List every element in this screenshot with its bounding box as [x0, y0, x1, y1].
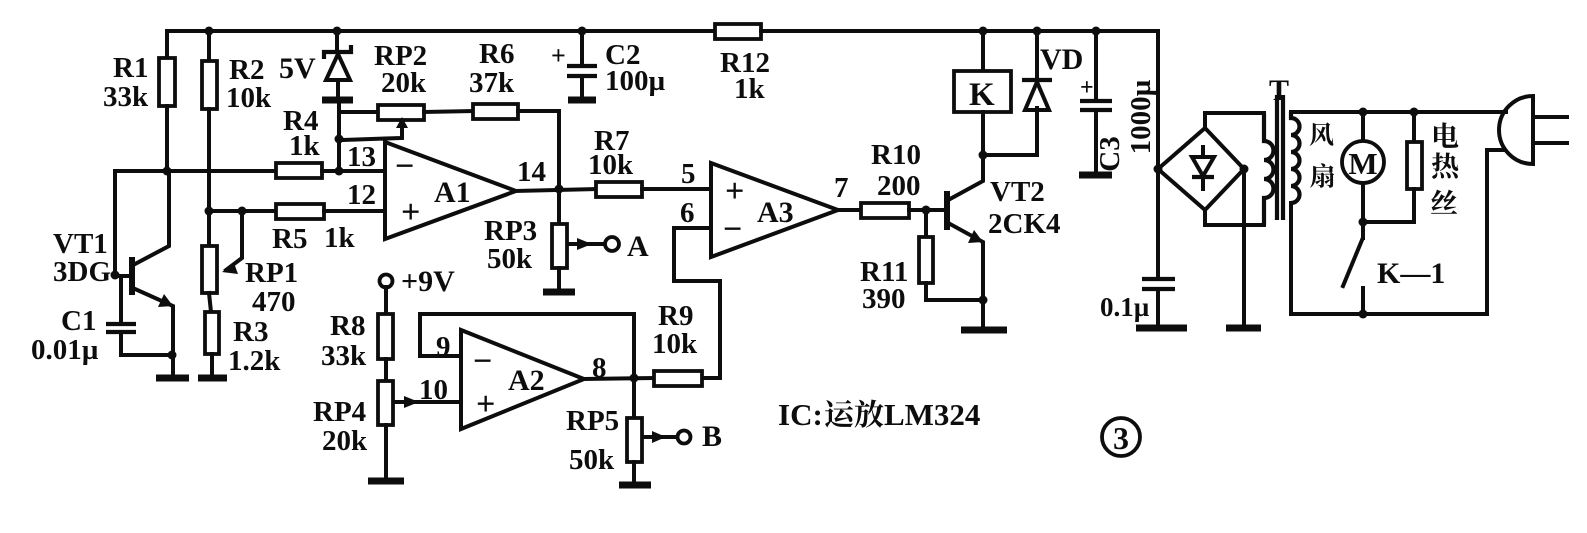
svg-text:33k: 33k [321, 340, 367, 372]
wire A2 output [584, 378, 654, 379]
svg-text:20k: 20k [381, 67, 427, 99]
ground RP3 [543, 289, 575, 296]
resistor R6 body [473, 104, 518, 119]
capacitor C1 [119, 276, 123, 323]
bridge inner diode [1201, 147, 1205, 157]
svg-text:1k: 1k [289, 130, 321, 162]
svg-text:+: + [551, 41, 566, 70]
svg-text:3: 3 [1113, 420, 1129, 456]
plug prongs [1535, 115, 1567, 119]
svg-text:K—1: K—1 [1377, 257, 1445, 290]
svg-text:A3: A3 [757, 196, 794, 229]
potentiometer RP3 [557, 189, 561, 224]
wire A1 pin12 line [207, 209, 276, 213]
svg-text:A2: A2 [508, 364, 545, 397]
potentiometer RP5 wiper arrow to terminal B [645, 435, 677, 439]
zener diode 5V [335, 31, 339, 52]
transformer T secondary winding [1264, 113, 1274, 225]
op-amp A2 [461, 330, 584, 429]
potentiometer RP5 [632, 378, 636, 418]
svg-text:0.1µ: 0.1µ [1100, 292, 1150, 322]
svg-text:IC:: IC: [778, 397, 823, 432]
svg-text:+9V: +9V [401, 265, 455, 298]
potentiometer RP1 body [207, 211, 211, 246]
label fan (vertical) [1310, 122, 1334, 145]
potentiometer RP4 body [378, 381, 393, 425]
ground 0.1u [1136, 325, 1187, 332]
svg-text:9: 9 [436, 331, 451, 363]
svg-text:A: A [627, 230, 649, 263]
label heating wire (vertical) [1434, 122, 1458, 148]
wire bridge right to ground [1242, 169, 1246, 326]
svg-text:20k: 20k [322, 425, 368, 457]
wire primary top to plug [1291, 110, 1506, 114]
wire bottom rail right to plug [1487, 150, 1503, 314]
svg-text:RP5: RP5 [566, 405, 619, 437]
resistor R10 body [861, 203, 909, 218]
plug body [1499, 96, 1533, 164]
svg-text:+: + [476, 386, 495, 423]
relay coil K box [981, 31, 985, 71]
resistor R9 body [654, 371, 702, 386]
svg-text:LM324: LM324 [884, 397, 980, 432]
wire A2 pin9 feedback loop [420, 314, 634, 378]
wire RP2 left terminal [339, 110, 378, 114]
op-amp A3 [711, 163, 838, 257]
heater resistor body [1412, 112, 1416, 142]
svg-text:1k: 1k [324, 222, 356, 254]
svg-text:10k: 10k [226, 82, 272, 114]
svg-text:A1: A1 [434, 176, 471, 209]
capacitor C2 [578, 27, 587, 36]
resistor R2 [207, 31, 211, 61]
ground VT2 emitter [961, 327, 1007, 334]
svg-text:R5: R5 [272, 223, 307, 255]
potentiometer RP4 wiper arrow to A2 pin10 [396, 400, 461, 404]
node heater branch top [1410, 108, 1419, 117]
terminal +9V circle [380, 275, 393, 288]
svg-text:R10: R10 [871, 139, 921, 171]
node zener RP2 wiper [335, 135, 344, 144]
svg-text:200: 200 [877, 170, 921, 202]
wire bridge top to transformer secondary [1205, 113, 1264, 128]
resistor R4 body [276, 163, 322, 178]
wire top supply rail left segment [167, 29, 717, 33]
svg-text:390: 390 [862, 283, 906, 315]
svg-text:7: 7 [834, 172, 849, 204]
wire primary bottom to bottom rail [1291, 203, 1487, 314]
transistor VT2 base bar [944, 191, 950, 230]
svg-text:1.2k: 1.2k [228, 345, 281, 377]
motor M circle [1361, 112, 1365, 141]
svg-text:14: 14 [517, 156, 546, 188]
resistor R8 [384, 287, 388, 314]
transistor VT2 emitter [950, 224, 983, 327]
transistor VT2 collector [950, 155, 983, 199]
ground bridge [1226, 325, 1261, 332]
svg-text:R1: R1 [113, 52, 148, 84]
svg-text:37k: 37k [469, 67, 515, 99]
ground RP5 [619, 482, 651, 489]
svg-text:12: 12 [347, 179, 376, 211]
bridge rectifier diamond [1158, 128, 1244, 210]
svg-text:10k: 10k [588, 149, 634, 181]
resistor R5 body [276, 204, 324, 219]
node motor branch top [1359, 108, 1368, 117]
transistor VT1 collector [135, 171, 169, 264]
resistor R1 [165, 31, 169, 58]
op-amp A1 [385, 142, 516, 239]
svg-text:5: 5 [681, 158, 696, 190]
svg-text:+: + [401, 194, 420, 231]
wire pin13 node down to VT1 base [115, 171, 131, 276]
svg-text:0.01µ: 0.01µ [31, 334, 99, 366]
resistor R7 body [596, 182, 642, 197]
capacitor 0.1u [1156, 170, 1160, 278]
diode VD [1033, 27, 1042, 36]
potentiometer RP2 wiper arrow [341, 126, 402, 140]
ground R3 [198, 375, 227, 382]
svg-text:T: T [1269, 74, 1289, 107]
wire A3 pin6 feedback loop [674, 228, 720, 378]
potentiometer RP3 wiper arrow to terminal A [568, 242, 605, 246]
resistor R11 [924, 210, 928, 237]
wire A1 pin13 line [115, 169, 276, 173]
svg-text:R6: R6 [479, 38, 514, 70]
circled figure number 3 [1102, 418, 1140, 456]
svg-text:1k: 1k [734, 73, 766, 105]
resistor R12 body on rail [715, 24, 761, 39]
svg-text:5V: 5V [279, 52, 316, 85]
wire RP2 to R6 [424, 111, 473, 112]
terminal A circle [605, 237, 619, 251]
capacitor C3 [1092, 27, 1101, 36]
potentiometer RP1 wiper arrow [226, 211, 242, 270]
svg-text:+: + [725, 173, 744, 210]
svg-text:VT2: VT2 [990, 176, 1045, 208]
svg-text:10k: 10k [652, 328, 698, 360]
svg-text:3DG: 3DG [53, 256, 111, 288]
wire A1 output [516, 189, 596, 191]
svg-text:1000µ: 1000µ [1125, 79, 1157, 154]
svg-text:13: 13 [347, 141, 376, 173]
svg-text:50k: 50k [487, 243, 533, 275]
svg-text:R8: R8 [330, 310, 365, 342]
svg-text:RP1: RP1 [245, 257, 298, 289]
svg-text:RP4: RP4 [313, 396, 366, 428]
svg-text:VD: VD [1040, 43, 1083, 76]
svg-text:100µ: 100µ [605, 65, 666, 97]
svg-text:M: M [1348, 146, 1377, 181]
svg-text:R3: R3 [233, 316, 268, 348]
svg-text:−: − [395, 148, 414, 185]
wire R6 to A1 output node [518, 111, 559, 189]
svg-text:C1: C1 [61, 305, 96, 337]
transformer core [1275, 95, 1279, 220]
transformer T primary winding [1291, 112, 1300, 203]
wire bridge bottom to transformer secondary [1205, 210, 1264, 225]
node rail R2 [205, 27, 214, 36]
svg-text:−: − [473, 343, 492, 380]
wire A3 output [838, 208, 861, 212]
svg-text:+: + [1080, 75, 1094, 101]
svg-text:33k: 33k [103, 81, 149, 113]
svg-text:2CK4: 2CK4 [988, 208, 1061, 240]
switch K-1 [1361, 222, 1365, 238]
transistor VT1 emitter [135, 289, 173, 377]
ground VT1 emitter [156, 375, 189, 382]
svg-text:−: − [723, 211, 742, 248]
node VT1 base [111, 271, 120, 280]
wire top supply rail right segment [761, 31, 1158, 170]
resistor R3 [209, 293, 211, 312]
terminal B circle [678, 431, 691, 444]
ground RP4 [384, 425, 388, 480]
node rail zener [333, 27, 342, 36]
svg-text:C3: C3 [1094, 136, 1126, 171]
svg-text:10: 10 [419, 374, 448, 406]
svg-text:470: 470 [252, 286, 296, 318]
svg-text:K: K [969, 77, 995, 113]
svg-text:B: B [702, 420, 722, 453]
transistor VT1 base bar [129, 257, 135, 295]
svg-text:6: 6 [680, 197, 695, 229]
svg-text:50k: 50k [569, 444, 615, 476]
potentiometer RP2 body [378, 105, 424, 120]
